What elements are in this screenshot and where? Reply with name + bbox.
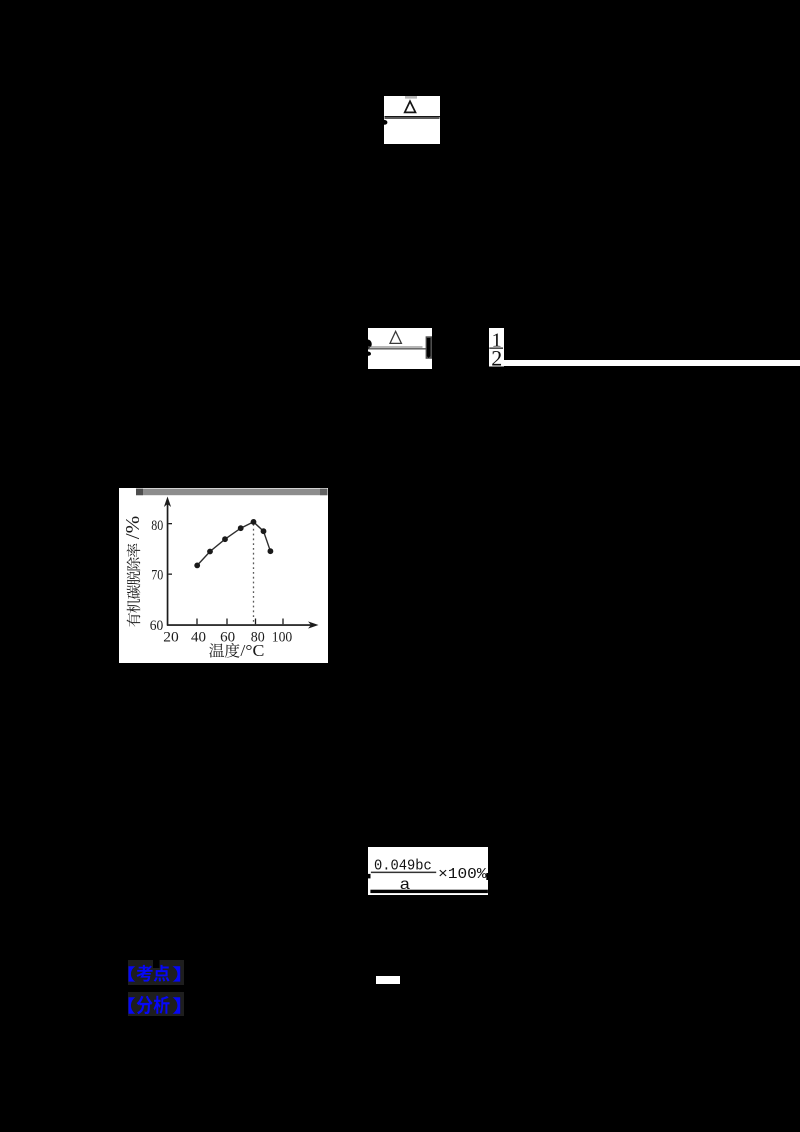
formula image A (delta over equals), white patch [384,96,440,144]
chart image: organic carbon removal vs temperature [119,488,328,663]
chart x-axis title wen-du /degC [119,488,328,663]
white dash (blank answer) [376,976,400,984]
formula image: 0.049bc/a x 100% [368,847,489,895]
formula image B (delta over equals with clipped glyphs) [368,328,433,369]
long white horizontal bar [504,360,800,367]
svg-text:2: 2 [491,345,502,366]
blue tag kaodian with dark highlight [128,960,184,985]
blue tag fenxi with dark highlight [128,992,184,1017]
svg-text:/°C: /°C [240,641,264,660]
svg-text:/%: /% [122,516,144,540]
svg-text:×100%: ×100% [438,866,487,883]
fraction one-half white patch [489,328,504,367]
